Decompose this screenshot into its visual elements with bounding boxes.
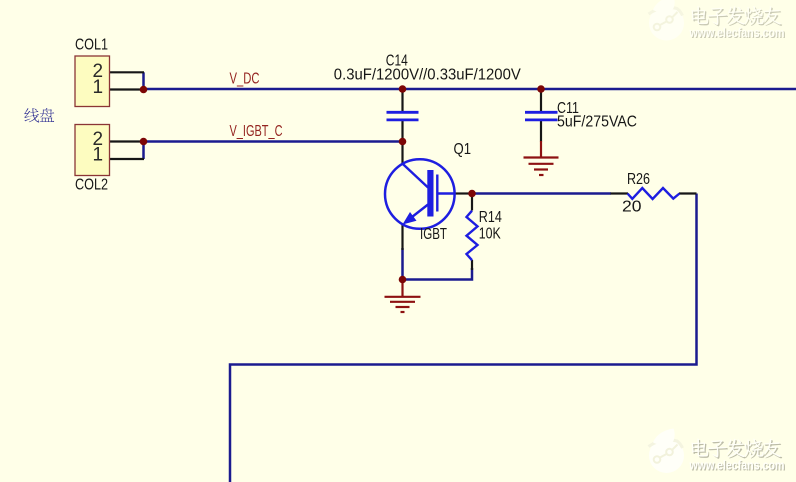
- svg-text:COL2: COL2: [75, 177, 108, 194]
- svg-text:20: 20: [622, 198, 642, 215]
- svg-text:Q1: Q1: [454, 141, 472, 158]
- svg-text:1: 1: [93, 77, 104, 98]
- svg-text:IGBT: IGBT: [420, 226, 447, 243]
- svg-text:5uF/275VAC: 5uF/275VAC: [557, 114, 637, 131]
- svg-text:0.3uF/1200V//0.33uF/1200V: 0.3uF/1200V//0.33uF/1200V: [334, 67, 521, 84]
- svg-text:1: 1: [93, 145, 104, 166]
- svg-text:10K: 10K: [479, 226, 501, 243]
- svg-text:R26: R26: [627, 171, 650, 188]
- svg-text:V_IGBT_C: V_IGBT_C: [230, 123, 283, 140]
- svg-text:COL1: COL1: [75, 36, 108, 53]
- svg-text:R14: R14: [479, 209, 502, 226]
- svg-text:V_DC: V_DC: [230, 71, 260, 88]
